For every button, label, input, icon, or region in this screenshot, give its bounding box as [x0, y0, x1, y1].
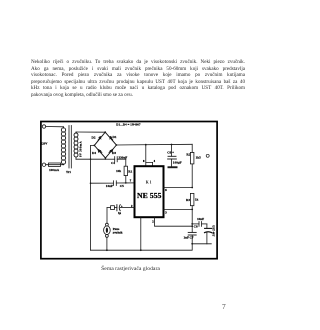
svg-text:D1: D1 — [113, 135, 117, 139]
svg-text:100mA: 100mA — [49, 168, 60, 172]
svg-text:D2: D2 — [92, 136, 96, 140]
svg-text:R3: R3 — [186, 198, 190, 202]
svg-text:C6 +: C6 + — [167, 150, 174, 154]
svg-text:D4: D4 — [92, 151, 96, 155]
svg-text:4: 4 — [154, 160, 156, 163]
svg-text:3: 3 — [165, 212, 167, 215]
svg-text:1k5: 1k5 — [196, 156, 201, 160]
svg-text:10k: 10k — [116, 169, 121, 173]
svg-text:D1...D4 = 1N4007: D1...D4 = 1N4007 — [116, 122, 141, 126]
svg-text:1k: 1k — [195, 197, 199, 201]
svg-text:2: 2 — [152, 220, 154, 223]
svg-text:220V: 220V — [41, 141, 49, 145]
svg-text:R2: R2 — [186, 152, 190, 156]
svg-text:C4: C4 — [111, 161, 115, 165]
svg-text:C5: C5 — [120, 184, 124, 188]
svg-text:Tr1: Tr1 — [66, 170, 71, 174]
svg-text:NE 555: NE 555 — [137, 191, 162, 200]
svg-text:10nF: 10nF — [197, 217, 204, 221]
svg-text:1µ: 1µ — [118, 212, 121, 215]
svg-text:7: 7 — [130, 179, 132, 182]
svg-text:9V 300mA: 9V 300mA — [78, 141, 82, 157]
svg-text:10nF: 10nF — [106, 184, 113, 188]
svg-text:C8: C8 — [194, 225, 198, 229]
svg-text:UST 40T: UST 40T — [212, 225, 216, 236]
svg-text:K 1: K 1 — [146, 181, 152, 185]
svg-text:8: 8 — [143, 160, 145, 163]
svg-text:330nF: 330nF — [119, 155, 128, 159]
svg-text:D3: D3 — [112, 151, 116, 155]
svg-text:C7: C7 — [190, 235, 194, 239]
svg-text:6: 6 — [165, 189, 167, 192]
svg-text:100µF: 100µF — [173, 161, 182, 165]
svg-text:1nF: 1nF — [184, 235, 190, 239]
svg-text:zvučnik: zvučnik — [113, 231, 123, 235]
svg-text:R1: R1 — [128, 169, 132, 173]
